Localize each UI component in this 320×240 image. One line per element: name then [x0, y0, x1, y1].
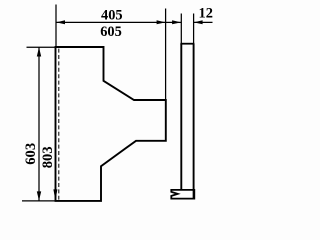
arrowhead right — [157, 20, 166, 24]
main profile outline — [56, 47, 166, 201]
plate left edge — [180, 44, 182, 190]
12 dimension right segment — [194, 21, 213, 23]
extension line bottom-left — [22, 200, 56, 202]
svg-text:12: 12 — [199, 5, 213, 21]
arrowhead right (12 dim) — [172, 20, 181, 24]
plate top edge — [180, 43, 194, 45]
svg-text:605: 605 — [100, 24, 122, 40]
foot clamp — [171, 190, 194, 199]
svg-text:803: 803 — [40, 146, 56, 168]
extension line right of main view — [165, 9, 167, 100]
svg-text:603: 603 — [23, 143, 39, 165]
dimension line 603/803 vertical — [38, 47, 40, 201]
extension line above left edge — [55, 5, 57, 48]
dimension line 405/605 horizontal — [56, 21, 166, 23]
arrowhead up — [37, 47, 41, 56]
12 dimension left segment — [166, 21, 181, 23]
plate extension line left — [180, 14, 182, 44]
arrowhead down on left edge (803) — [53, 189, 57, 200]
extension line top-left — [27, 46, 56, 48]
plate extension line right — [193, 14, 195, 44]
hidden edge dashed line — [58, 49, 60, 200]
arrowhead left — [56, 20, 65, 24]
svg-text:405: 405 — [101, 8, 123, 24]
plate right edge — [193, 44, 195, 199]
arrowhead down — [37, 191, 41, 200]
arrowhead left (12 dim) — [194, 20, 203, 24]
